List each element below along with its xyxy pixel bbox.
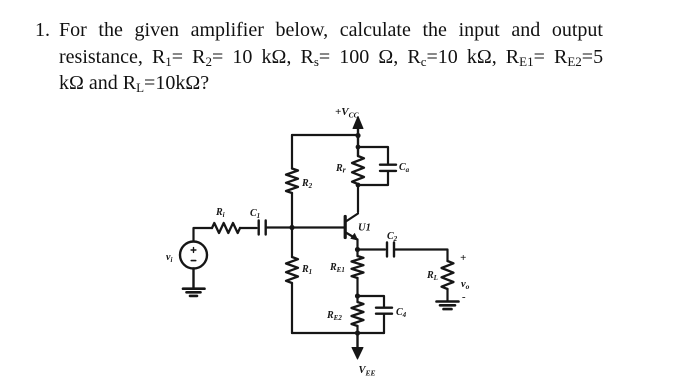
node (Re1/Re2/C4) (355, 293, 360, 298)
svg-text:RE2: RE2 (326, 310, 342, 322)
wire C4 branch top (358, 296, 385, 307)
wire Ca branch top (358, 147, 388, 164)
+Vcc supply arrow (353, 117, 363, 157)
wire RL to ground (446, 289, 448, 301)
node (Vee junction) (355, 330, 360, 335)
svg-text:Ca: Ca (399, 162, 410, 174)
capacitor C1 (259, 221, 266, 235)
svg-text:C1: C1 (250, 208, 260, 220)
wire bottom rail (292, 332, 384, 334)
resistor RL (442, 261, 454, 289)
ground (under RL) (437, 302, 459, 310)
wire rail to collector (357, 185, 359, 212)
resistor R2 (286, 169, 298, 194)
wire emitter node to Re1 (356, 250, 358, 257)
svg-text:C4: C4 (396, 307, 407, 319)
wire base (292, 226, 344, 228)
resistor Re1 (352, 256, 364, 278)
wire Ca branch bottom (358, 172, 388, 185)
wire Re2 to bottom rail (356, 326, 358, 333)
svg-text:-: - (462, 291, 466, 303)
svg-text:VEE: VEE (359, 365, 376, 378)
capacitor C2 (387, 243, 394, 257)
source vi (circle) (180, 242, 207, 269)
svg-text:+VCC: +VCC (335, 106, 360, 120)
wire Ri to C1 (240, 227, 257, 229)
transistor U1 (345, 214, 358, 250)
wire emitter to C2 (358, 248, 386, 250)
resistor R1 (286, 257, 298, 283)
svg-text:U1: U1 (358, 223, 371, 234)
resistor Rr (collector resistor) (352, 156, 364, 184)
Vee supply arrow (352, 333, 363, 359)
resistor Ri (212, 223, 240, 233)
svg-text:Ri: Ri (215, 207, 225, 219)
wire C2 to RL (395, 250, 448, 262)
svg-text:C2: C2 (387, 231, 398, 243)
svg-text:R2: R2 (301, 178, 313, 190)
svg-text:Rr: Rr (335, 163, 347, 175)
svg-text:+: + (460, 252, 466, 264)
wire Re1 to node (356, 278, 358, 296)
problem statement text (35, 17, 50, 44)
capacitor C4 (376, 308, 392, 314)
node A (base junction) (289, 225, 294, 230)
svg-text:RL: RL (426, 270, 438, 282)
svg-text:vo: vo (461, 279, 470, 291)
node (rail/R2) (355, 133, 360, 138)
svg-text:RE1: RE1 (329, 262, 345, 274)
wire source bottom to ground (192, 269, 194, 289)
capacitor Ca (380, 165, 396, 171)
svg-text:R1: R1 (301, 264, 312, 276)
wire left vertical (R2/R1 column) (291, 135, 293, 333)
node (rail/Ca top) (356, 145, 361, 150)
node (emitter) (355, 247, 360, 252)
ground (under vi) (183, 289, 205, 296)
node (rail/Ca bottom) (356, 183, 361, 188)
resistor Re2 (356, 296, 358, 302)
wire source top to Ri (194, 228, 213, 242)
wire C1 to base node (266, 226, 292, 228)
wire C4 branch bottom (383, 315, 385, 333)
svg-text:vi: vi (166, 252, 172, 264)
wire top rail (292, 134, 358, 136)
